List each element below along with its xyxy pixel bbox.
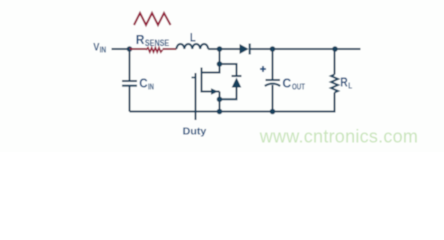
MOSFET gate bar tick — [192, 77, 196, 79]
resistor RSENSE — [146, 48, 163, 52]
node output junction — [270, 46, 276, 52]
node load junction — [332, 46, 338, 52]
body diode lower wires — [220, 88, 237, 100]
node input junction — [127, 46, 133, 52]
MOSFET source arrow — [211, 88, 218, 95]
heat zigzag symbol above RSENSE — [134, 13, 171, 25]
svg-text:R: R — [136, 32, 145, 47]
svg-text:R: R — [340, 75, 348, 89]
capacitor COUT — [272, 49, 274, 80]
body diode branch wires — [220, 64, 237, 76]
svg-text:L: L — [348, 80, 352, 90]
wire inductor to switch node — [208, 48, 239, 50]
svg-text:C: C — [282, 76, 291, 91]
body diode cathode bar — [232, 75, 242, 77]
node drain-diode junction — [217, 61, 223, 67]
svg-text:L: L — [190, 32, 196, 45]
diode (freewheeling) — [240, 44, 249, 54]
wire output stub — [335, 48, 361, 50]
wire ground rail — [130, 93, 335, 112]
wire VIN to input node — [112, 48, 130, 50]
capacitor COUT plus sign — [260, 68, 266, 70]
MOSFET source lead — [202, 91, 220, 93]
wire red lead left of RSENSE — [130, 48, 147, 50]
MOSFET gate lead (to Duty) — [195, 73, 197, 120]
node source-diode junction — [217, 97, 223, 103]
node switch junction — [217, 46, 223, 52]
svg-text:SENSE: SENSE — [145, 38, 169, 48]
svg-text:www.cntronics.com: www.cntronics.com — [259, 126, 418, 146]
capacitor CIN — [129, 49, 131, 81]
svg-text:IN: IN — [148, 82, 154, 92]
MOSFET channel bar — [201, 68, 203, 93]
resistor RL zigzag — [331, 75, 338, 93]
wire source to rail — [219, 92, 221, 112]
wire diode to output node — [250, 48, 335, 50]
node source-rail junction — [217, 109, 223, 115]
resistor RL lead top — [334, 49, 336, 75]
svg-text:OUT: OUT — [292, 82, 305, 92]
body diode triangle — [232, 78, 242, 88]
wire red lead right of RSENSE — [163, 48, 177, 50]
svg-text:Duty: Duty — [183, 127, 207, 138]
node output-rail junction — [270, 109, 276, 115]
MOSFET drain lead — [202, 49, 220, 73]
svg-text:IN: IN — [100, 44, 107, 54]
inductor L — [177, 44, 209, 49]
svg-text:C: C — [139, 76, 148, 91]
